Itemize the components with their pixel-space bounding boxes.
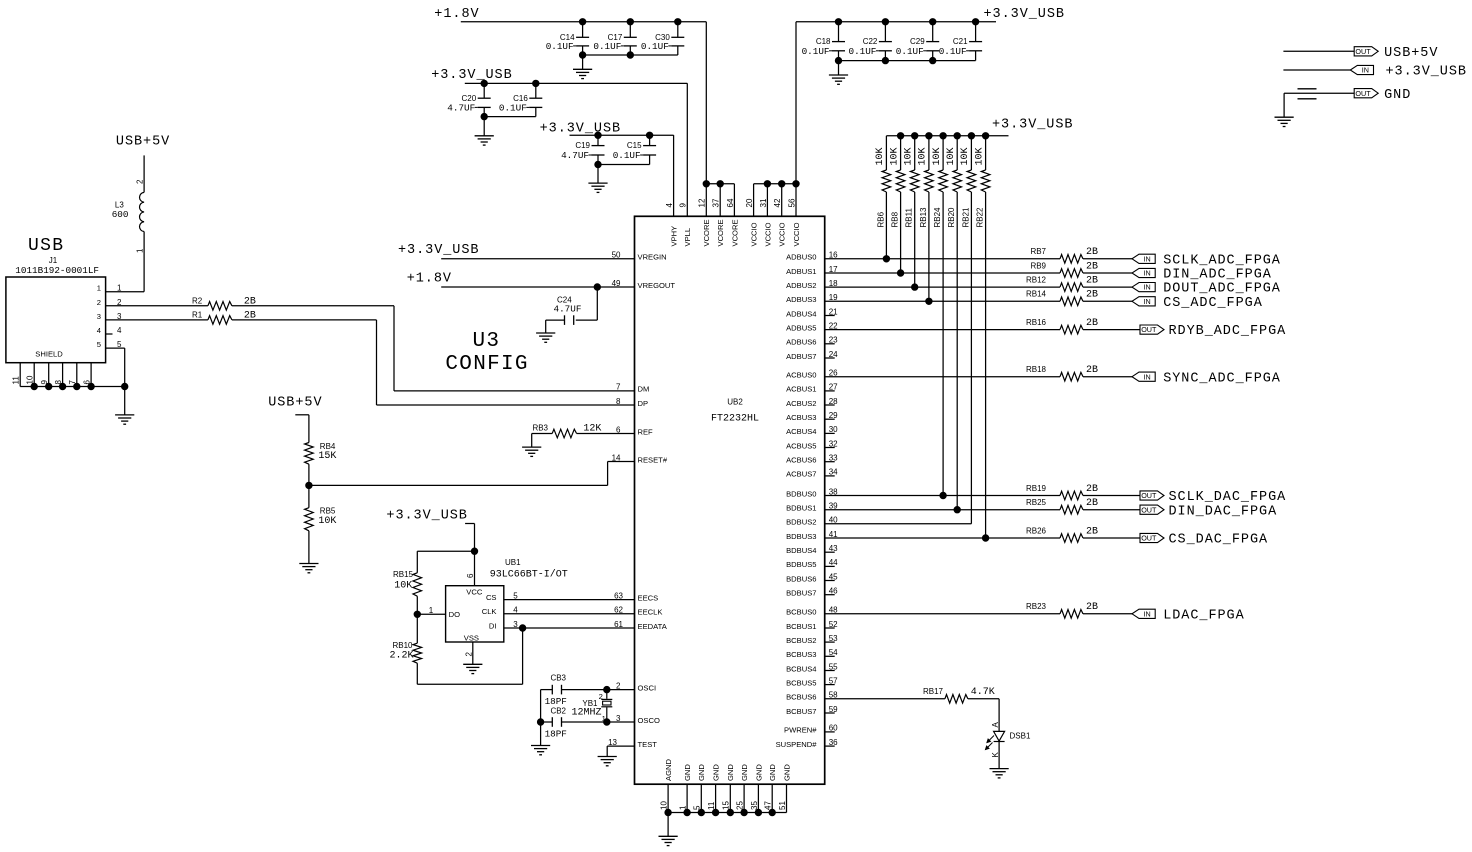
svg-text:TEST: TEST [638,740,658,749]
svg-text:GND: GND [697,764,706,781]
svg-text:+3.3V_USB: +3.3V_USB [398,243,479,258]
svg-text:RB23: RB23 [1026,602,1047,611]
svg-text:IN: IN [1144,297,1151,306]
svg-text:56: 56 [787,198,796,207]
svg-text:IN: IN [1144,609,1151,618]
svg-text:DIN_DAC_FPGA: DIN_DAC_FPGA [1169,504,1278,519]
svg-text:RB3: RB3 [532,424,548,433]
svg-text:BCBUS2: BCBUS2 [786,636,816,645]
svg-text:RB11: RB11 [905,208,914,228]
svg-text:SHIELD: SHIELD [35,350,63,359]
svg-text:RB8: RB8 [891,211,900,227]
svg-text:+3.3V_USB: +3.3V_USB [984,7,1065,22]
svg-text:GND: GND [782,764,791,781]
svg-text:4: 4 [117,326,122,335]
svg-text:USB: USB [28,236,64,256]
svg-text:AGND: AGND [664,759,673,781]
svg-text:0.1UF: 0.1UF [848,46,876,57]
svg-text:23: 23 [829,336,838,345]
svg-text:CS_ADC_FPGA: CS_ADC_FPGA [1163,296,1263,311]
svg-text:RB10: RB10 [392,641,413,650]
svg-text:ACBUS6: ACBUS6 [786,456,816,465]
svg-text:VCORE: VCORE [702,219,711,246]
svg-text:+3.3V_USB: +3.3V_USB [431,68,512,83]
svg-text:33: 33 [829,454,838,463]
svg-text:4.7UF: 4.7UF [554,304,582,315]
svg-text:2B: 2B [1086,602,1098,613]
svg-text:21: 21 [829,307,838,316]
svg-text:11: 11 [707,801,716,810]
svg-text:52: 52 [829,620,838,629]
svg-text:C21: C21 [953,37,968,46]
svg-text:ACBUS4: ACBUS4 [786,427,816,436]
svg-text:2: 2 [136,179,145,184]
svg-text:GND: GND [1384,88,1411,103]
svg-text:34: 34 [829,468,838,477]
svg-text:30: 30 [829,425,838,434]
svg-text:BDBUS1: BDBUS1 [786,504,816,513]
svg-text:+3.3V_USB: +3.3V_USB [992,118,1073,133]
svg-text:CB2: CB2 [550,706,566,715]
svg-text:4.7K: 4.7K [971,687,995,698]
svg-text:8: 8 [616,397,621,406]
svg-text:15K: 15K [318,451,336,462]
svg-text:4: 4 [97,326,101,335]
svg-text:ACBUS0: ACBUS0 [786,371,816,380]
svg-text:OUT: OUT [1141,534,1157,543]
svg-text:25: 25 [736,801,745,810]
svg-text:24: 24 [829,350,838,359]
svg-text:BDBUS2: BDBUS2 [786,518,816,527]
svg-text:BDBUS6: BDBUS6 [786,574,816,583]
svg-text:35: 35 [750,801,759,810]
svg-text:CB3: CB3 [550,674,566,683]
svg-text:93LC66BT-I/OT: 93LC66BT-I/OT [490,569,568,581]
svg-text:ACBUS7: ACBUS7 [786,470,816,479]
svg-text:C18: C18 [816,37,831,46]
svg-text:3: 3 [616,714,621,723]
svg-text:57: 57 [829,676,838,685]
svg-text:C16: C16 [513,94,528,103]
svg-text:ADBUS2: ADBUS2 [786,281,816,290]
svg-text:DP: DP [638,399,649,408]
svg-text:VCORE: VCORE [730,219,739,246]
svg-text:37: 37 [712,198,721,207]
svg-text:12MHZ: 12MHZ [571,708,601,719]
svg-text:6: 6 [616,425,621,434]
svg-text:14: 14 [612,453,621,462]
svg-text:0.1UF: 0.1UF [499,103,527,114]
svg-text:RB25: RB25 [1026,498,1047,507]
svg-text:5: 5 [513,591,518,600]
svg-text:IN: IN [1144,372,1151,381]
svg-text:ACBUS3: ACBUS3 [786,413,816,422]
svg-text:PWREN#: PWREN# [784,726,817,735]
svg-text:C19: C19 [575,141,590,150]
svg-text:10K: 10K [974,147,985,165]
svg-text:GND: GND [740,764,749,781]
svg-text:OUT: OUT [1141,325,1157,334]
svg-text:53: 53 [829,634,838,643]
svg-text:4: 4 [513,606,518,615]
svg-text:2B: 2B [1086,290,1098,301]
svg-text:UB1: UB1 [505,558,521,567]
svg-text:ACBUS5: ACBUS5 [786,441,816,450]
svg-text:1: 1 [117,284,122,293]
svg-text:ADBUS7: ADBUS7 [786,352,816,361]
svg-text:4.7UF: 4.7UF [447,103,475,114]
svg-text:RDYB_ADC_FPGA: RDYB_ADC_FPGA [1169,324,1287,339]
svg-text:44: 44 [829,558,838,567]
svg-text:2: 2 [599,692,603,701]
svg-text:A: A [991,722,1000,728]
svg-text:2B: 2B [1086,276,1098,287]
svg-text:2B: 2B [1086,261,1098,272]
svg-text:CONFIG: CONFIG [445,353,528,376]
svg-text:18PF: 18PF [545,728,567,739]
svg-text:CS: CS [486,593,497,602]
svg-text:2B: 2B [1086,498,1098,509]
svg-text:10K: 10K [889,147,900,165]
svg-text:C29: C29 [910,37,925,46]
svg-text:BDBUS4: BDBUS4 [786,546,816,555]
svg-text:OUT: OUT [1355,47,1371,56]
svg-text:64: 64 [726,198,735,207]
svg-text:3: 3 [97,312,101,321]
svg-text:CS_DAC_FPGA: CS_DAC_FPGA [1169,533,1269,548]
svg-text:11: 11 [12,376,21,385]
svg-text:2: 2 [616,681,621,690]
svg-text:2B: 2B [1086,526,1098,537]
svg-text:FT2232HL: FT2232HL [711,414,759,425]
svg-text:RB5: RB5 [320,507,336,516]
svg-text:REF: REF [638,427,654,436]
svg-text:7: 7 [616,383,621,392]
svg-text:3: 3 [513,620,518,629]
svg-text:1: 1 [429,606,434,615]
svg-text:RB21: RB21 [961,207,970,228]
svg-text:46: 46 [829,587,838,596]
svg-text:9: 9 [679,203,688,208]
svg-text:ADBUS0: ADBUS0 [786,253,816,262]
svg-text:10K: 10K [918,147,929,165]
svg-text:IN: IN [1362,66,1369,75]
svg-text:54: 54 [829,648,838,657]
svg-text:10K: 10K [875,147,886,165]
svg-text:IN: IN [1144,283,1151,292]
svg-text:ADBUS1: ADBUS1 [786,267,816,276]
svg-text:4.7UF: 4.7UF [561,150,589,161]
svg-text:R1: R1 [192,310,203,319]
svg-text:0.1UF: 0.1UF [546,41,574,52]
svg-text:USB+5V: USB+5V [116,135,170,150]
svg-text:BDBUS5: BDBUS5 [786,560,816,569]
svg-text:1: 1 [602,714,606,723]
svg-text:USB+5V: USB+5V [1384,46,1438,61]
svg-text:50: 50 [612,251,621,260]
svg-text:12K: 12K [583,424,601,435]
svg-text:10: 10 [660,801,669,810]
svg-text:UB2: UB2 [727,398,743,407]
svg-text:RB7: RB7 [1030,247,1046,256]
svg-text:DO: DO [449,610,460,619]
svg-text:DM: DM [638,385,650,394]
svg-text:2B: 2B [1086,247,1098,258]
svg-text:BCBUS5: BCBUS5 [786,678,816,687]
svg-text:2B: 2B [244,296,256,307]
svg-text:VSS: VSS [464,633,479,642]
svg-text:6: 6 [466,573,475,578]
svg-text:RB19: RB19 [1026,484,1047,493]
svg-text:BCBUS7: BCBUS7 [786,707,816,716]
svg-text:2B: 2B [244,310,256,321]
svg-text:DIN_ADC_FPGA: DIN_ADC_FPGA [1163,268,1272,283]
svg-text:55: 55 [829,662,838,671]
svg-text:43: 43 [829,544,838,553]
svg-text:VCCIO: VCCIO [750,222,759,246]
svg-text:SCLK_ADC_FPGA: SCLK_ADC_FPGA [1163,253,1281,268]
svg-text:VCCIO: VCCIO [763,222,772,246]
svg-text:VCCIO: VCCIO [792,222,801,246]
svg-text:RB15: RB15 [393,570,414,579]
svg-text:BCBUS6: BCBUS6 [786,693,816,702]
svg-text:10K: 10K [932,147,943,165]
svg-text:60: 60 [829,724,838,733]
svg-text:47: 47 [764,801,773,810]
svg-text:DOUT_ADC_FPGA: DOUT_ADC_FPGA [1163,282,1281,297]
svg-text:LDAC_FPGA: LDAC_FPGA [1163,608,1244,623]
svg-text:EEDATA: EEDATA [638,622,668,631]
svg-text:RB16: RB16 [1026,318,1047,327]
svg-text:0.1UF: 0.1UF [939,46,967,57]
svg-text:GND: GND [768,764,777,781]
svg-text:2: 2 [465,652,474,657]
svg-text:RB13: RB13 [919,207,928,228]
svg-text:ADBUS5: ADBUS5 [786,323,816,332]
svg-text:31: 31 [759,198,768,207]
svg-text:2.2K: 2.2K [389,651,413,662]
svg-text:RB24: RB24 [933,207,942,228]
svg-text:2B: 2B [1086,318,1098,329]
svg-text:1011B192-0001LF: 1011B192-0001LF [15,265,99,276]
svg-text:BCBUS1: BCBUS1 [786,622,816,631]
svg-text:10K: 10K [318,516,336,527]
svg-text:+3.3V_USB: +3.3V_USB [1386,65,1467,80]
svg-text:USB+5V: USB+5V [268,396,322,411]
svg-text:51: 51 [778,801,787,810]
svg-text:4: 4 [665,203,674,208]
svg-text:RB9: RB9 [1030,261,1046,270]
svg-text:RB20: RB20 [947,207,956,228]
svg-text:1: 1 [136,248,145,253]
svg-text:C15: C15 [627,141,642,150]
svg-text:42: 42 [773,198,782,207]
svg-text:BCBUS0: BCBUS0 [786,608,816,617]
svg-text:15: 15 [722,801,731,810]
svg-text:36: 36 [829,738,838,747]
svg-text:RB22: RB22 [976,207,985,228]
svg-text:VREGIN: VREGIN [638,253,667,262]
svg-text:GND: GND [712,764,721,781]
svg-text:BCBUS4: BCBUS4 [786,664,816,673]
svg-text:10K: 10K [394,581,412,592]
svg-text:2B: 2B [1086,484,1098,495]
svg-text:RB12: RB12 [1026,276,1047,285]
svg-text:GND: GND [726,764,735,781]
svg-text:BDBUS7: BDBUS7 [786,589,816,598]
svg-text:63: 63 [614,591,623,600]
svg-text:RB26: RB26 [1026,526,1047,535]
svg-text:27: 27 [829,383,838,392]
svg-text:ADBUS4: ADBUS4 [786,309,816,318]
svg-text:0.1UF: 0.1UF [613,150,641,161]
svg-text:RB6: RB6 [876,211,885,227]
svg-text:RB17: RB17 [923,687,944,696]
svg-text:IN: IN [1144,254,1151,263]
svg-text:EECLK: EECLK [638,608,663,617]
svg-text:3: 3 [117,312,122,321]
svg-text:0.1UF: 0.1UF [641,41,669,52]
svg-text:20: 20 [745,198,754,207]
svg-text:C20: C20 [462,94,477,103]
svg-text:+3.3V_USB: +3.3V_USB [540,121,621,136]
svg-text:ACBUS2: ACBUS2 [786,399,816,408]
svg-text:BCBUS3: BCBUS3 [786,650,816,659]
svg-text:10K: 10K [960,147,971,165]
svg-text:49: 49 [612,279,621,288]
svg-text:OSCI: OSCI [638,683,657,692]
svg-text:61: 61 [614,620,623,629]
svg-text:SUSPEND#: SUSPEND# [776,740,818,749]
svg-text:10K: 10K [903,147,914,165]
svg-text:45: 45 [829,572,838,581]
svg-text:U3: U3 [473,330,501,353]
svg-text:VCC: VCC [466,588,483,597]
svg-text:BDBUS3: BDBUS3 [786,532,816,541]
svg-text:RB4: RB4 [320,442,336,451]
svg-text:OSCO: OSCO [638,716,660,725]
svg-text:OUT: OUT [1141,505,1157,514]
svg-text:600: 600 [112,209,129,220]
svg-text:59: 59 [829,705,838,714]
svg-text:10K: 10K [946,147,957,165]
svg-text:VCORE: VCORE [716,219,725,246]
svg-text:29: 29 [829,411,838,420]
svg-text:VREGOUT: VREGOUT [638,281,676,290]
svg-text:13: 13 [608,738,617,747]
svg-text:62: 62 [614,606,623,615]
svg-text:OUT: OUT [1355,89,1371,98]
svg-text:RB14: RB14 [1026,290,1047,299]
svg-text:VCCIO: VCCIO [778,222,787,246]
svg-text:0.1UF: 0.1UF [593,41,621,52]
svg-text:RESET#: RESET# [638,455,668,464]
svg-text:J1: J1 [49,256,58,265]
svg-text:GND: GND [754,764,763,781]
svg-text:ADBUS3: ADBUS3 [786,295,816,304]
svg-text:DI: DI [489,621,497,630]
svg-text:SCLK_DAC_FPGA: SCLK_DAC_FPGA [1169,490,1287,505]
svg-text:0.1UF: 0.1UF [802,46,830,57]
svg-text:2B: 2B [1086,365,1098,376]
svg-text:VPLL: VPLL [683,228,692,247]
svg-text:SYNC_ADC_FPGA: SYNC_ADC_FPGA [1163,371,1281,386]
svg-text:32: 32 [829,439,838,448]
svg-text:C22: C22 [863,37,878,46]
svg-text:+1.8V: +1.8V [434,7,479,22]
svg-text:RB18: RB18 [1026,365,1047,374]
svg-text:28: 28 [829,397,838,406]
svg-text:5: 5 [97,340,101,349]
svg-text:DSB1: DSB1 [1010,732,1031,741]
svg-text:VPHY: VPHY [670,226,679,247]
svg-text:2: 2 [97,298,101,307]
svg-text:OUT: OUT [1141,491,1157,500]
svg-text:ADBUS6: ADBUS6 [786,338,816,347]
svg-text:IN: IN [1144,269,1151,278]
svg-text:+3.3V_USB: +3.3V_USB [386,509,467,524]
svg-text:ACBUS1: ACBUS1 [786,385,816,394]
svg-text:2: 2 [117,298,122,307]
svg-text:12: 12 [698,198,707,207]
svg-text:5: 5 [117,340,122,349]
svg-text:GND: GND [683,764,692,781]
svg-text:EECS: EECS [638,593,659,602]
svg-text:K: K [991,752,1000,758]
svg-text:0.1UF: 0.1UF [896,46,924,57]
svg-text:BDBUS0: BDBUS0 [786,489,816,498]
svg-text:+1.8V: +1.8V [407,272,452,287]
svg-text:1: 1 [97,284,101,293]
svg-text:R2: R2 [192,296,203,305]
svg-text:CLK: CLK [482,607,497,616]
